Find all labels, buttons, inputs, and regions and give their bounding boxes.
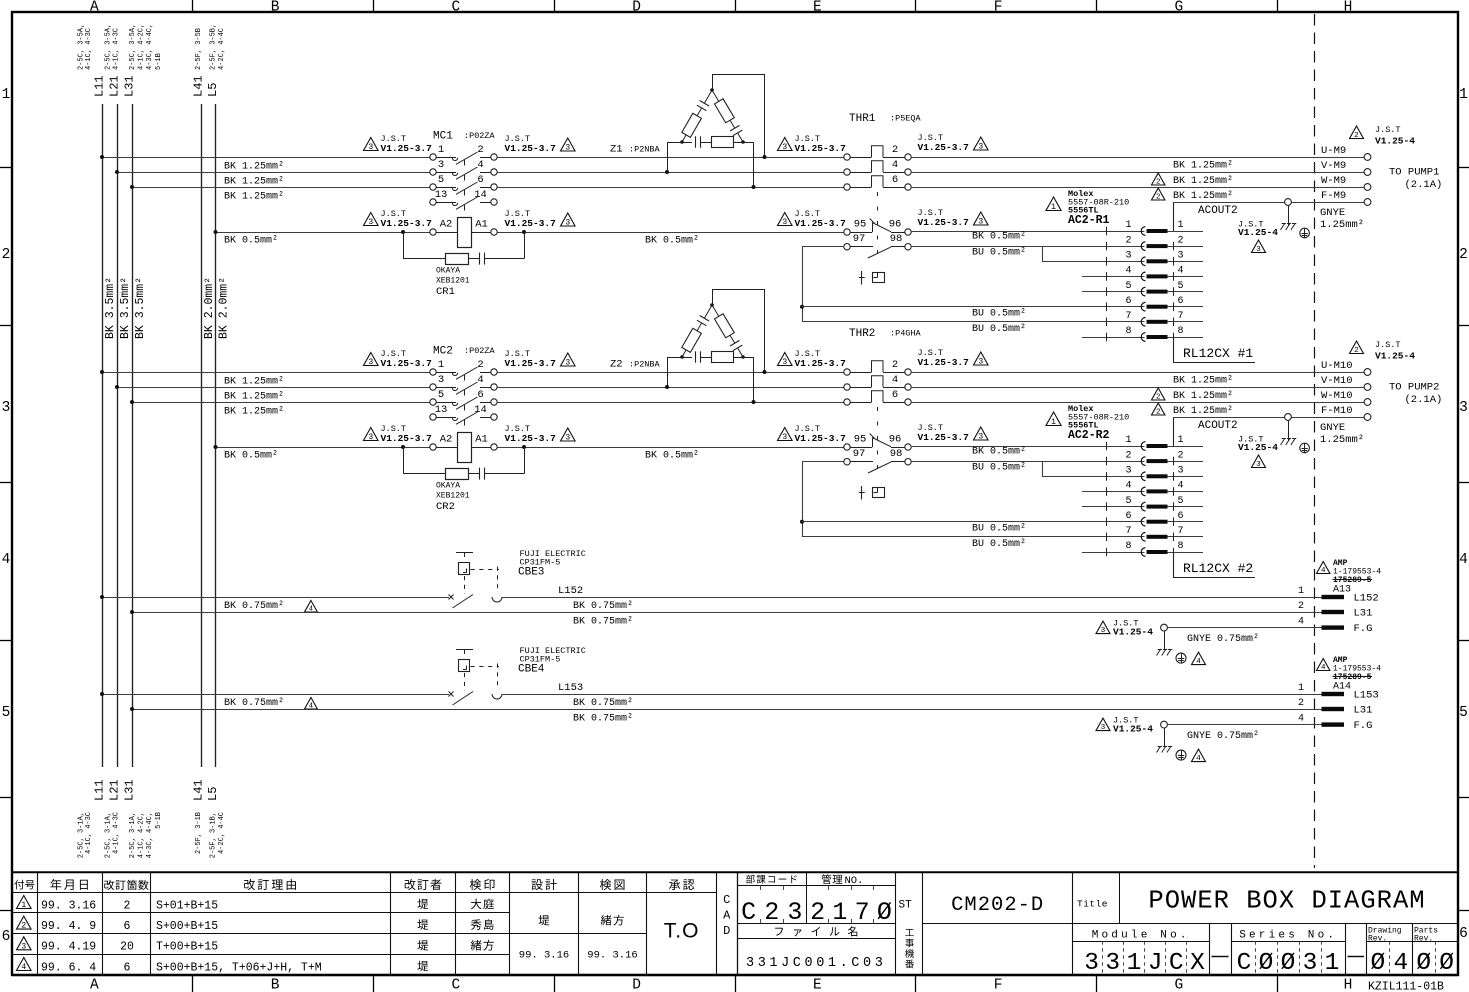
connector A14 AMP 1-179553-4 [1317, 659, 1330, 671]
svg-text:1: 1 [1125, 220, 1131, 231]
pin 5 [1106, 287, 1108, 296]
wire phase W to MC1 [132, 187, 430, 189]
svg-text:97: 97 [853, 448, 866, 460]
svg-text:CBE3: CBE3 [518, 567, 544, 579]
pin4 stub [1082, 491, 1145, 493]
svg-text:A: A [723, 909, 731, 923]
svg-text:V1.25-3.7: V1.25-3.7 [795, 218, 847, 229]
wire MC1 to THR1 phase V [497, 172, 844, 174]
svg-text:14: 14 [474, 404, 487, 416]
ACOUT2 bracket [1173, 202, 1175, 231]
svg-text:POWER BOX DIAGRAM: POWER BOX DIAGRAM [1148, 887, 1425, 916]
pin 3 [1106, 472, 1108, 481]
svg-text:A1: A1 [475, 219, 488, 231]
svg-text:J.S.T: J.S.T [1375, 125, 1401, 135]
svg-text:3: 3 [1101, 724, 1106, 732]
svg-text:BK 1.25mm²: BK 1.25mm² [224, 407, 284, 418]
svg-text:3: 3 [782, 218, 787, 227]
svg-text:4-2C, 4-4C: 4-2C, 4-4C [218, 28, 226, 70]
svg-text:BK 0.75mm²: BK 0.75mm² [573, 698, 633, 709]
svg-text:A: A [90, 0, 99, 16]
THR2 aux contact 97-98 [844, 459, 850, 465]
pin 4 [1106, 272, 1108, 281]
svg-text:BK 1.25mm²: BK 1.25mm² [224, 177, 284, 188]
svg-text:2: 2 [1125, 450, 1131, 461]
terminal V-M10 [1364, 384, 1371, 391]
svg-text:2-5F, 3-1B,: 2-5F, 3-1B, [210, 812, 218, 858]
svg-text:L153: L153 [558, 682, 583, 694]
svg-text:8: 8 [1178, 326, 1184, 337]
pin 2 L31 [1322, 610, 1345, 614]
pin 5 [1106, 502, 1108, 511]
GNYE earth pigtail [1285, 414, 1292, 421]
svg-text:ACOUT2: ACOUT2 [1198, 205, 1238, 217]
svg-text:3: 3 [1178, 251, 1184, 262]
wire to pin3 [1042, 246, 1044, 261]
svg-text:95: 95 [854, 434, 867, 446]
pin 4 F.G [1322, 625, 1345, 629]
svg-text:2: 2 [1156, 394, 1160, 402]
THR pole 6 [844, 184, 850, 190]
circuit breaker CBE4 FUJI CP31FM-5 [449, 692, 454, 697]
svg-text:4: 4 [1459, 552, 1468, 568]
svg-text:BK 1.25mm²: BK 1.25mm² [1173, 176, 1233, 187]
svg-text:BK 0.5mm²: BK 0.5mm² [972, 232, 1026, 243]
circuit breaker CBE3 FUJI CP31FM-5 [449, 595, 454, 600]
svg-text:Ø: Ø [1416, 950, 1431, 977]
svg-text:99. 4.19: 99. 4.19 [41, 941, 96, 954]
svg-text:96: 96 [889, 434, 902, 446]
svg-text:GNYE 0.75mm²: GNYE 0.75mm² [1187, 731, 1259, 742]
wire 97 branch to pin6 [802, 246, 844, 248]
svg-text::P02ZA: :P02ZA [464, 131, 496, 141]
pin 1 [1106, 227, 1108, 236]
svg-text:CM202-D: CM202-D [951, 894, 1044, 917]
svg-text:MC2: MC2 [433, 345, 453, 357]
terminal W-M9 [1364, 184, 1371, 191]
svg-text:GNYE 0.75mm²: GNYE 0.75mm² [1187, 634, 1259, 645]
svg-text:3: 3 [782, 358, 787, 367]
Z2 right branch resistor+cap [712, 305, 719, 316]
svg-text:Ø: Ø [1439, 950, 1454, 977]
svg-text:3: 3 [978, 433, 983, 442]
svg-text:8: 8 [1125, 326, 1131, 337]
svg-text:2-5F, 3-5B,: 2-5F, 3-5B, [210, 24, 218, 70]
Z1 left branch cap+resistor [704, 90, 712, 103]
svg-text:13: 13 [435, 189, 448, 201]
pin5 stub [1082, 506, 1145, 508]
code C23 2170 [737, 923, 896, 925]
coil MC1 A2-A1 [430, 229, 436, 235]
svg-text:7: 7 [1178, 311, 1184, 322]
svg-text:J.S.T: J.S.T [1375, 340, 1401, 350]
svg-text:V1.25-3.7: V1.25-3.7 [795, 433, 847, 444]
svg-text:V1.25-4: V1.25-4 [1238, 227, 1278, 238]
svg-text:4-1C, 4-3C: 4-1C, 4-3C [113, 28, 121, 70]
svg-text:Ø: Ø [1370, 950, 1385, 977]
ファイル名 [737, 938, 896, 940]
svg-text:4: 4 [1321, 664, 1326, 672]
svg-text:L31: L31 [123, 75, 137, 97]
svg-text:V1.25-4: V1.25-4 [1238, 442, 1278, 453]
wire phase V to MC1 [117, 172, 430, 174]
svg-text:W-M9: W-M9 [1321, 175, 1346, 187]
Module No. / Series No. / Rev row [1209, 924, 1211, 976]
ACOUT2 bracket [1173, 417, 1175, 446]
svg-text:2: 2 [477, 359, 483, 371]
svg-text:U-M9: U-M9 [1321, 145, 1346, 157]
svg-text:2-5F, 3-1B: 2-5F, 3-1B [195, 812, 203, 854]
svg-text:2-5C, 3-5A,: 2-5C, 3-5A, [129, 24, 137, 70]
svg-text:4: 4 [477, 374, 483, 386]
svg-text:3: 3 [1256, 246, 1261, 254]
pin8 stub [1082, 337, 1145, 339]
svg-text:3: 3 [565, 434, 570, 443]
svg-text:C: C [1169, 950, 1184, 977]
revision row 3 [17, 937, 32, 950]
svg-text:3: 3 [565, 359, 570, 368]
pin 6 [1106, 302, 1108, 311]
svg-text:2: 2 [1156, 179, 1160, 187]
svg-text:V1.25-3.7: V1.25-3.7 [505, 143, 557, 154]
svg-text:3: 3 [1105, 950, 1120, 977]
svg-text:2: 2 [1298, 698, 1304, 709]
table headers [14, 880, 24, 890]
svg-text:3: 3 [565, 144, 570, 153]
svg-text:7: 7 [1125, 526, 1131, 537]
svg-text:3: 3 [1125, 251, 1131, 262]
pin 6 [1106, 517, 1108, 526]
svg-text:Ø: Ø [1259, 950, 1274, 977]
svg-text:2: 2 [477, 144, 483, 156]
svg-text:2: 2 [2, 247, 11, 263]
svg-text:13: 13 [435, 404, 448, 416]
svg-text:BU 0.5mm²: BU 0.5mm² [972, 463, 1026, 474]
svg-text:1: 1 [1325, 950, 1340, 977]
svg-text:3: 3 [1178, 466, 1184, 477]
svg-text:5: 5 [1125, 496, 1131, 507]
svg-text:2-5F, 3-5B: 2-5F, 3-5B [195, 28, 203, 70]
svg-text:Z2: Z2 [610, 359, 623, 371]
svg-text:99. 4. 9: 99. 4. 9 [41, 920, 96, 933]
svg-text:V1.25-3.7: V1.25-3.7 [795, 143, 847, 154]
svg-text:98: 98 [890, 448, 903, 460]
svg-text:5: 5 [438, 389, 444, 401]
svg-text:T+00+B+15: T+00+B+15 [156, 941, 218, 954]
bus line L5 [215, 104, 217, 767]
svg-text:BK 2.0mm²: BK 2.0mm² [218, 277, 231, 339]
svg-text:4-3C, 4-4C,: 4-3C, 4-4C, [146, 812, 154, 858]
J.S.T V1.25-4 [1350, 126, 1364, 139]
wire 98 to pin2 [912, 461, 1042, 463]
svg-text:3: 3 [565, 219, 570, 228]
svg-text:A2: A2 [440, 219, 453, 231]
pin 8 [1106, 548, 1108, 557]
svg-text:TO PUMP1: TO PUMP1 [1389, 167, 1439, 179]
svg-text:E: E [813, 0, 822, 16]
svg-text:3: 3 [368, 218, 373, 227]
svg-text:6: 6 [477, 389, 483, 401]
svg-text:BK 0.5mm²: BK 0.5mm² [224, 236, 278, 247]
connector AC2-R1 Molex 5557-08R-210 [1046, 197, 1061, 211]
svg-text:3: 3 [1459, 400, 1468, 416]
svg-text:4-1C, 4-3C: 4-1C, 4-3C [113, 812, 121, 854]
snubber CR1 OKAYA XEB1201 [403, 232, 405, 259]
svg-text:2: 2 [764, 898, 779, 927]
wire MC1 to THR1 phase U [497, 157, 844, 159]
svg-text:3: 3 [1125, 466, 1131, 477]
svg-text:BU 0.5mm²: BU 0.5mm² [972, 524, 1026, 535]
svg-text:RL12CX #1: RL12CX #1 [1183, 346, 1253, 361]
svg-text:1: 1 [1298, 586, 1304, 597]
svg-text:331JC001.C03: 331JC001.C03 [746, 956, 886, 971]
svg-text:2-5C, 3-1A,: 2-5C, 3-1A, [129, 812, 137, 858]
svg-text:L152: L152 [1354, 593, 1379, 605]
svg-text:V1.25-3.7: V1.25-3.7 [505, 433, 557, 444]
svg-text:S+01+B+15: S+01+B+15 [156, 899, 218, 912]
pin 1 [1106, 442, 1108, 451]
svg-text:NO.: NO. [845, 875, 864, 887]
svg-text:L21: L21 [108, 75, 122, 97]
svg-text:A1: A1 [475, 434, 488, 446]
svg-text:1: 1 [1298, 683, 1304, 694]
pin 4 [1106, 487, 1108, 496]
svg-text:B: B [271, 0, 280, 16]
svg-text:2: 2 [1156, 409, 1160, 417]
svg-text:4: 4 [1178, 266, 1184, 277]
CBE4 trip box [456, 649, 473, 651]
svg-text:C: C [452, 978, 461, 992]
wire Z2 top [712, 289, 714, 305]
svg-text:BK 3.5mm²: BK 3.5mm² [104, 277, 117, 339]
svg-text:ST: ST [899, 900, 913, 912]
svg-text::P2NBA: :P2NBA [629, 360, 661, 370]
svg-text:Z1: Z1 [610, 144, 623, 156]
RL12CX #1 block [1173, 337, 1175, 362]
svg-text:E: E [813, 978, 822, 992]
svg-text:5-1B: 5-1B [155, 53, 163, 70]
revision row 4 [17, 958, 32, 971]
wires THR1 to pump terminals [912, 157, 1364, 159]
bus line L41 [201, 104, 203, 767]
svg-text:3: 3 [438, 374, 444, 386]
svg-text:Series No.: Series No. [1239, 930, 1337, 942]
svg-text:4-1C, 4-3C: 4-1C, 4-3C [85, 812, 93, 854]
svg-text:F-M9: F-M9 [1321, 190, 1346, 202]
bus line L31 [132, 104, 134, 767]
svg-text:Ø: Ø [877, 898, 892, 927]
svg-text:L152: L152 [558, 585, 583, 597]
contact 5-6 [430, 184, 436, 190]
svg-text:L5: L5 [206, 787, 220, 801]
svg-text:1: 1 [2, 87, 11, 103]
svg-text:BK 1.25mm²: BK 1.25mm² [1173, 191, 1233, 202]
Z1 bottom branch [682, 142, 692, 144]
GNYE earth pigtail [1096, 718, 1110, 731]
svg-text:96: 96 [889, 219, 902, 231]
svg-text:A: A [90, 978, 99, 992]
svg-text:4: 4 [21, 963, 26, 972]
svg-text:1: 1 [832, 898, 847, 927]
svg-text:THR1: THR1 [849, 113, 876, 125]
svg-text:BU 0.5mm²: BU 0.5mm² [972, 539, 1026, 550]
svg-text:3: 3 [368, 433, 373, 442]
svg-text:2: 2 [1354, 347, 1359, 355]
pin8 stub [1082, 552, 1145, 554]
svg-text::P02ZA: :P02ZA [464, 346, 496, 356]
svg-text:G: G [1175, 0, 1184, 16]
svg-text:20: 20 [120, 941, 134, 954]
svg-text:Title: Title [1077, 899, 1108, 910]
svg-text:2: 2 [1459, 247, 1468, 263]
wire L11 to CBE3 [102, 597, 449, 599]
svg-text:V1.25-3.7: V1.25-3.7 [381, 358, 433, 369]
wire Z1 top [712, 74, 714, 90]
svg-text:BK 0.5mm²: BK 0.5mm² [645, 236, 699, 247]
svg-text:3: 3 [787, 898, 802, 927]
svg-text:X: X [1190, 950, 1205, 977]
svg-text:2: 2 [1178, 450, 1184, 461]
svg-text::P4GHA: :P4GHA [890, 329, 922, 339]
svg-text:2: 2 [124, 899, 131, 912]
THR pole 2 [844, 154, 850, 160]
svg-text:W-M10: W-M10 [1321, 390, 1353, 402]
svg-text:(2.1A): (2.1A) [1405, 179, 1443, 191]
svg-text:B: B [271, 978, 280, 992]
pin 1 L153 [1322, 692, 1345, 696]
THR pole 4 [844, 384, 850, 390]
svg-text:2: 2 [1125, 235, 1131, 246]
svg-text:Rev.: Rev. [1414, 935, 1433, 944]
svg-text:S+00+B+15: S+00+B+15 [156, 920, 218, 933]
GNYE earth pigtail [1096, 621, 1110, 634]
wire 97 branch to pin6 [802, 461, 844, 463]
wire coil to THR aux [497, 232, 844, 234]
svg-text:5-1B: 5-1B [155, 812, 163, 829]
svg-text:CR2: CR2 [436, 501, 455, 513]
svg-text:7: 7 [1125, 311, 1131, 322]
Z2 left branch cap+resistor [704, 305, 712, 318]
svg-text:D: D [632, 978, 641, 992]
svg-text:C: C [1237, 950, 1252, 977]
svg-text:F: F [994, 0, 1003, 16]
F wire [1173, 202, 1285, 204]
svg-text:3: 3 [782, 143, 787, 152]
svg-text:1.25mm²: 1.25mm² [1320, 434, 1364, 446]
svg-text:XEB1201: XEB1201 [436, 277, 470, 286]
svg-text:L21: L21 [108, 779, 122, 801]
contact 13-14 [430, 414, 436, 420]
svg-text:BK 1.25mm²: BK 1.25mm² [1173, 391, 1233, 402]
pin 1 L152 [1322, 595, 1345, 599]
svg-text:5: 5 [1459, 705, 1468, 721]
wire Z2 left drop [667, 357, 682, 359]
terminal V-M9 [1364, 169, 1371, 176]
svg-text:1: 1 [1178, 220, 1184, 231]
svg-text:3: 3 [782, 433, 787, 442]
svg-text:F.G: F.G [1354, 720, 1373, 732]
部課コード / 管理NO. [737, 885, 896, 887]
svg-text:V1.25-3.7: V1.25-3.7 [381, 143, 433, 154]
svg-text:3: 3 [21, 942, 26, 951]
pin5 stub [1082, 291, 1145, 293]
pin 2 [1106, 457, 1108, 466]
svg-text:L11: L11 [93, 75, 107, 97]
svg-text:G: G [1175, 978, 1184, 992]
svg-text:4: 4 [1196, 658, 1201, 666]
wire 98 to pin2 [912, 246, 1042, 248]
svg-text:8: 8 [1178, 541, 1184, 552]
svg-text:V1.25-3.7: V1.25-3.7 [918, 217, 970, 228]
svg-text:1: 1 [1459, 87, 1468, 103]
connector AC2-R2 Molex 5557-08R-210 [1046, 412, 1061, 426]
svg-text:6: 6 [1178, 296, 1184, 307]
svg-text:L41: L41 [192, 75, 206, 97]
svg-text:6: 6 [124, 961, 131, 974]
svg-text:3: 3 [438, 159, 444, 171]
svg-text:BK 0.75mm²: BK 0.75mm² [224, 601, 284, 612]
svg-text:V1.25-3.7: V1.25-3.7 [381, 433, 433, 444]
THR1 aux contact 97-98 [844, 244, 850, 250]
svg-text:3: 3 [368, 143, 373, 152]
svg-text:C: C [723, 893, 730, 907]
svg-text:6: 6 [2, 929, 11, 945]
svg-text:6: 6 [477, 174, 483, 186]
svg-text:BK 3.5mm²: BK 3.5mm² [134, 277, 147, 339]
svg-text:BU 0.5mm²: BU 0.5mm² [972, 248, 1026, 259]
svg-text:BK 1.25mm²: BK 1.25mm² [224, 162, 284, 173]
svg-text:V1.25-3.7: V1.25-3.7 [381, 218, 433, 229]
svg-text:H: H [1344, 0, 1353, 16]
contact 1-2 [430, 154, 436, 160]
pin 7 [1106, 533, 1108, 542]
svg-text:BK 0.75mm²: BK 0.75mm² [224, 698, 284, 709]
svg-text:6: 6 [124, 920, 131, 933]
svg-text:D: D [723, 924, 730, 938]
contact 5-6 [430, 399, 436, 405]
svg-text:V-M10: V-M10 [1321, 375, 1353, 387]
svg-text:KZIL111-01B: KZIL111-01B [1368, 981, 1444, 992]
svg-text:1.25mm²: 1.25mm² [1320, 219, 1364, 231]
wire MC2 to THR2 phase U [497, 372, 844, 374]
svg-text:BK 0.75mm²: BK 0.75mm² [573, 601, 633, 612]
wire Z1 right drop [743, 142, 754, 144]
wire L31 to A13 pin2 [132, 612, 1322, 614]
pin 7 [1106, 318, 1108, 327]
wire GNYE to pin4 [1167, 627, 1321, 629]
pin 2 L31 [1322, 707, 1345, 711]
svg-text:BK 1.25mm²: BK 1.25mm² [1173, 376, 1233, 387]
svg-text:4: 4 [1125, 266, 1131, 277]
svg-text:1: 1 [1178, 435, 1184, 446]
svg-text:4: 4 [892, 159, 898, 171]
svg-text:4: 4 [1125, 481, 1131, 492]
svg-text:99. 3.16: 99. 3.16 [41, 899, 96, 912]
svg-text:6: 6 [892, 174, 898, 186]
svg-text:BU 0.5mm²: BU 0.5mm² [972, 309, 1026, 320]
Z1 right branch resistor+cap [712, 90, 719, 101]
svg-text:5: 5 [438, 174, 444, 186]
svg-text:BK 1.25mm²: BK 1.25mm² [1173, 406, 1233, 417]
wire L5 to coil MC2 [216, 447, 430, 449]
snubber CR2 OKAYA XEB1201 [403, 447, 405, 474]
pin 8 [1106, 333, 1108, 342]
terminal U-M10 [1364, 369, 1371, 376]
wires THR2 to pump terminals [912, 372, 1364, 374]
svg-text:3: 3 [978, 143, 983, 152]
svg-text:1: 1 [1127, 950, 1142, 977]
svg-text:2: 2 [1156, 194, 1160, 202]
